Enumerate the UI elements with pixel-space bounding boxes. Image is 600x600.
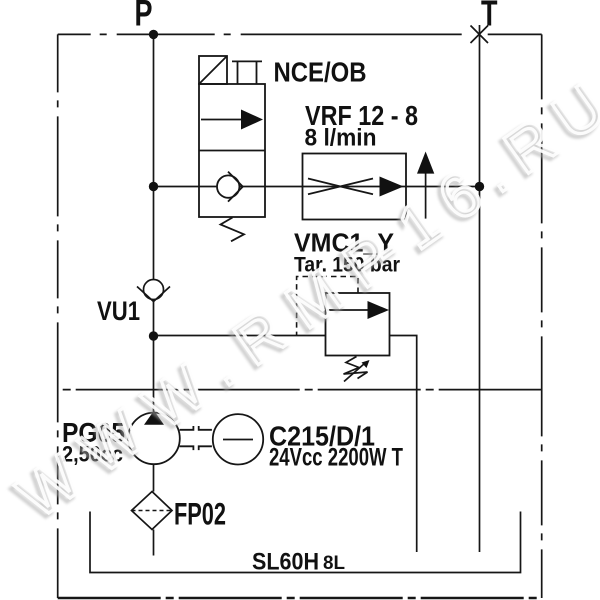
svg-text:8L: 8L (323, 553, 345, 574)
svg-text:VU1: VU1 (97, 296, 140, 326)
svg-text:P: P (135, 0, 153, 34)
svg-text:SL60H: SL60H (252, 549, 319, 576)
svg-text:8 l/min: 8 l/min (305, 125, 377, 152)
svg-text:24Vcc 2200W T: 24Vcc 2200W T (269, 444, 403, 472)
svg-text:NCE/OB: NCE/OB (274, 57, 367, 88)
svg-text:FP02: FP02 (174, 496, 226, 532)
svg-text:T: T (481, 0, 498, 34)
